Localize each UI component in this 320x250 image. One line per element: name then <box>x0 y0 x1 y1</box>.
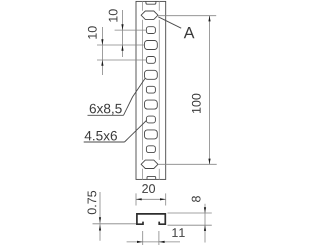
extension line 11 left <box>142 231 144 245</box>
label 100 <box>192 94 201 113</box>
large slot L1 <box>145 41 158 50</box>
small slot S5 <box>146 146 155 153</box>
label A <box>184 27 195 38</box>
label 10 left <box>88 26 97 38</box>
dimension line 11 <box>127 241 180 243</box>
dimension line 0.75 <box>99 192 101 241</box>
large slot L3 <box>145 100 158 109</box>
top partial slot <box>146 1 156 4</box>
label 11 <box>172 228 184 237</box>
extension line 8 top <box>168 212 212 214</box>
small slot S4 <box>146 116 155 123</box>
label 20 <box>142 184 155 193</box>
large slot L2 <box>145 70 158 79</box>
hex hole H1 <box>141 11 158 19</box>
small slot S1 <box>146 27 155 34</box>
dimension line 20 <box>136 198 166 200</box>
extension line 100 top <box>158 15 216 17</box>
underline 6x8,5 <box>88 114 124 116</box>
leader A <box>158 17 181 28</box>
dimension line 100 <box>208 16 210 165</box>
underline 4.5x6 <box>84 141 125 143</box>
section profile <box>137 214 165 224</box>
leader 4.5x6 <box>125 121 147 143</box>
dimension line 8 <box>204 204 206 243</box>
leader 6x8,5 <box>124 78 146 115</box>
rail right bend line <box>158 1 160 179</box>
bottom partial slot <box>147 176 156 179</box>
extension line 8 bottom <box>168 224 212 226</box>
extension line 100 bottom <box>158 163 216 165</box>
rail left bend line <box>142 1 144 179</box>
label 0.75 <box>87 191 96 214</box>
extension line 20 left <box>135 193 137 205</box>
label 10 right <box>109 9 118 21</box>
extension line hole L1 center <box>97 44 145 46</box>
small slot S2 <box>146 57 155 64</box>
extension line 11 right <box>158 231 160 245</box>
extension line 20 right <box>165 193 167 205</box>
label 4.5x6 <box>85 131 117 141</box>
hex hole H2 <box>141 160 158 168</box>
dimension line 10 left <box>101 27 103 75</box>
extension line hole S1 center <box>115 29 147 31</box>
small slot S3 <box>146 86 155 93</box>
dimension line 10 right <box>121 10 123 57</box>
label 8 <box>192 196 201 202</box>
rail body outline <box>136 1 166 179</box>
label 6x8,5 <box>90 104 122 115</box>
large slot L4 <box>145 130 158 139</box>
extension line hole S2 center <box>97 59 146 61</box>
extension line 0.75 <box>93 223 137 225</box>
